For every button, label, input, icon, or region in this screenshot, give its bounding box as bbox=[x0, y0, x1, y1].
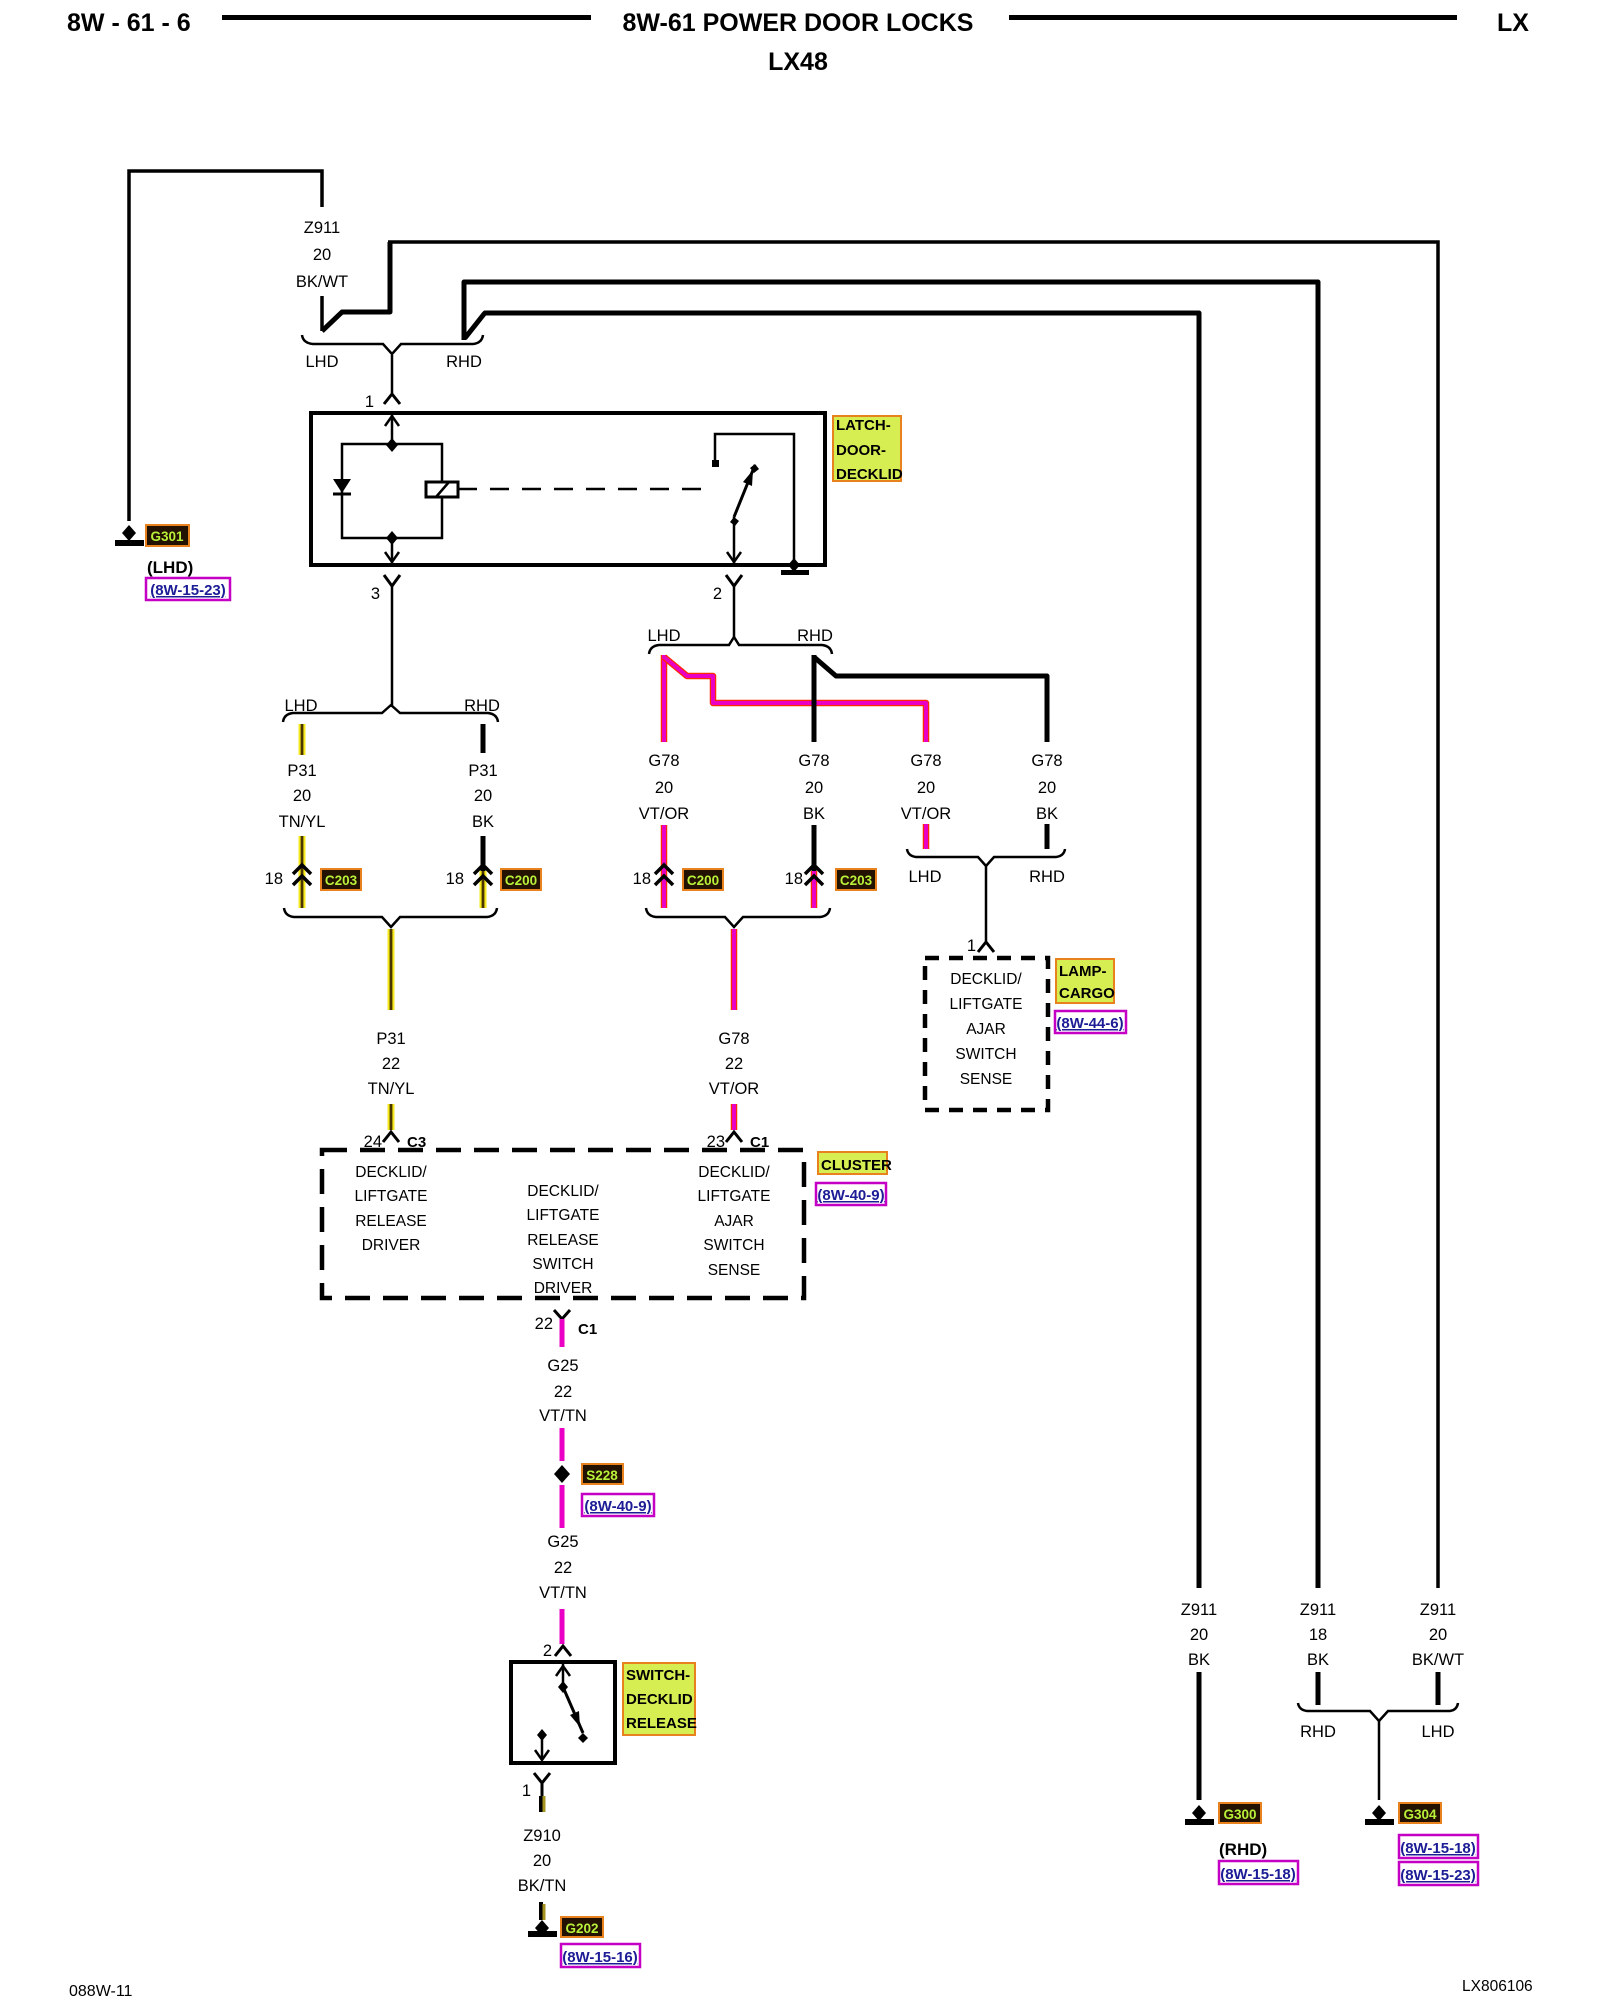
svg-text:20: 20 bbox=[293, 787, 311, 805]
brace RHD/LHD bottom right bbox=[1298, 1703, 1458, 1800]
svg-text:DECKLID/: DECKLID/ bbox=[527, 1183, 599, 1200]
svg-text:LIFTGATE: LIFTGATE bbox=[527, 1207, 600, 1224]
cluster dashed box bbox=[322, 1150, 804, 1298]
svg-text:C200: C200 bbox=[687, 873, 719, 888]
pin 1 lamp-cargo bbox=[967, 937, 994, 955]
pin 24 C3 cluster bbox=[364, 1132, 427, 1151]
svg-text:RHD: RHD bbox=[446, 353, 482, 371]
svg-text:G301: G301 bbox=[150, 529, 184, 544]
svg-text:Z911: Z911 bbox=[1181, 1601, 1217, 1619]
wire Z911 RHD routing (18 BK) bbox=[464, 282, 1318, 1588]
G78 column 1 labels and wire bbox=[639, 752, 690, 908]
svg-text:(RHD): (RHD) bbox=[1219, 1840, 1267, 1859]
wire G78 20 VT/OR LHD branch bbox=[664, 655, 926, 742]
svg-text:DRIVER: DRIVER bbox=[362, 1237, 421, 1254]
label CLUSTER bbox=[816, 1152, 892, 1205]
G78 column 2 labels and wire bbox=[798, 752, 829, 908]
svg-text:(8W-15-23): (8W-15-23) bbox=[150, 582, 226, 599]
ground G304 bbox=[1365, 1803, 1478, 1885]
switch arm with arrow bbox=[563, 1687, 583, 1733]
svg-text:G300: G300 bbox=[1223, 1807, 1256, 1822]
brace LHD/RHD under pin 2 bbox=[647, 627, 832, 654]
wire Z910 20 BK/TN bbox=[518, 1783, 567, 1920]
wire G25 22 VT/TN lower bbox=[539, 1533, 587, 1644]
svg-text:LHD: LHD bbox=[284, 697, 317, 715]
ground G301 bbox=[115, 525, 230, 600]
wire Z911 20 BK/WT LHD feed bbox=[129, 171, 348, 521]
svg-text:LIFTGATE: LIFTGATE bbox=[698, 1188, 771, 1205]
svg-text:LX806106: LX806106 bbox=[1462, 1978, 1533, 1995]
brace merge G78 columns 3-4 LHD/RHD bbox=[907, 849, 1065, 941]
svg-text:RELEASE: RELEASE bbox=[355, 1213, 427, 1230]
wire P31 22 TN/YL bbox=[368, 929, 415, 1130]
brace LHD/RHD under pin 3 bbox=[283, 697, 500, 722]
svg-text:C203: C203 bbox=[325, 873, 358, 888]
svg-text:LX: LX bbox=[1497, 9, 1529, 37]
svg-text:(LHD): (LHD) bbox=[147, 558, 193, 577]
pin 23 C1 cluster bbox=[707, 1132, 770, 1151]
svg-text:BK/TN: BK/TN bbox=[518, 1877, 567, 1895]
svg-text:CARGO: CARGO bbox=[1059, 985, 1115, 1002]
svg-text:LIFTGATE: LIFTGATE bbox=[355, 1188, 428, 1205]
svg-text:2: 2 bbox=[713, 585, 722, 603]
svg-text:BK: BK bbox=[803, 805, 825, 823]
wire Z911 LHD routing to right column bbox=[322, 242, 1438, 1588]
svg-text:C203: C203 bbox=[840, 873, 873, 888]
Z911 right column 2 (18 BK) bbox=[1300, 1601, 1336, 1705]
svg-text:P31: P31 bbox=[468, 762, 497, 780]
svg-text:RELEASE: RELEASE bbox=[527, 1232, 599, 1249]
wire P31 20 BK stub bbox=[468, 724, 497, 908]
svg-text:20: 20 bbox=[655, 779, 673, 797]
connector C200 18ga chevrons (G78) bbox=[633, 865, 723, 890]
svg-text:(8W-15-18): (8W-15-18) bbox=[1220, 1866, 1296, 1883]
svg-text:P31: P31 bbox=[376, 1030, 405, 1048]
svg-text:G78: G78 bbox=[910, 752, 941, 770]
svg-text:20: 20 bbox=[533, 1852, 551, 1870]
svg-text:18: 18 bbox=[785, 870, 803, 888]
svg-text:088W-11: 088W-11 bbox=[69, 1983, 133, 2000]
node: coil bottom junction bbox=[386, 531, 398, 545]
svg-text:SENSE: SENSE bbox=[708, 1262, 761, 1279]
svg-text:DECKLID: DECKLID bbox=[626, 1691, 693, 1708]
svg-text:8W-61 POWER DOOR LOCKS: 8W-61 POWER DOOR LOCKS bbox=[623, 9, 974, 37]
label LATCH-DOOR-DECKLID bbox=[833, 416, 903, 483]
svg-text:G78: G78 bbox=[798, 752, 829, 770]
connector C200 18ga chevrons bbox=[446, 865, 541, 890]
svg-text:RHD: RHD bbox=[1029, 868, 1065, 886]
svg-text:LATCH-: LATCH- bbox=[836, 417, 891, 434]
svg-text:SWITCH: SWITCH bbox=[532, 1256, 593, 1273]
wire G25 22 VT/TN upper bbox=[539, 1319, 587, 1461]
svg-text:SWITCH-: SWITCH- bbox=[626, 1667, 690, 1684]
svg-text:8W - 61 - 6: 8W - 61 - 6 bbox=[67, 9, 191, 37]
svg-text:22: 22 bbox=[535, 1315, 553, 1333]
svg-text:20: 20 bbox=[917, 779, 935, 797]
svg-text:(8W-15-16): (8W-15-16) bbox=[562, 1949, 638, 1966]
svg-text:G78: G78 bbox=[648, 752, 679, 770]
switch arm bbox=[734, 465, 755, 517]
svg-text:22: 22 bbox=[725, 1055, 743, 1073]
svg-text:LIFTGATE: LIFTGATE bbox=[950, 996, 1023, 1013]
footer bbox=[69, 1978, 1533, 2000]
pin 2 decklid release switch bbox=[543, 1642, 571, 1660]
svg-text:VT/OR: VT/OR bbox=[901, 805, 952, 823]
ground G202 bbox=[528, 1917, 640, 1967]
svg-text:BK: BK bbox=[1188, 1651, 1210, 1669]
svg-text:BK/WT: BK/WT bbox=[1412, 1651, 1464, 1669]
svg-text:18: 18 bbox=[633, 870, 651, 888]
lamp-cargo dashed box DECKLID/LIFTGATE AJAR SWITCH SENSE bbox=[925, 958, 1048, 1110]
wire G78 20 BK RHD branch bbox=[814, 655, 1047, 742]
svg-text:TN/YL: TN/YL bbox=[368, 1080, 415, 1098]
svg-text:BK: BK bbox=[1307, 1651, 1329, 1669]
svg-text:18: 18 bbox=[1309, 1626, 1327, 1644]
svg-text:VT/TN: VT/TN bbox=[539, 1407, 587, 1425]
svg-text:3: 3 bbox=[371, 585, 380, 603]
svg-text:C1: C1 bbox=[578, 1321, 597, 1338]
Z911 right column 3 (20 BK/WT) bbox=[1412, 1601, 1464, 1705]
svg-text:CLUSTER: CLUSTER bbox=[821, 1157, 892, 1174]
svg-text:(8W-44-6): (8W-44-6) bbox=[1056, 1015, 1123, 1032]
svg-text:VT/TN: VT/TN bbox=[539, 1584, 587, 1602]
svg-text:18: 18 bbox=[265, 870, 283, 888]
svg-text:20: 20 bbox=[1038, 779, 1056, 797]
svg-text:DRIVER: DRIVER bbox=[534, 1280, 593, 1297]
svg-text:DECKLID: DECKLID bbox=[836, 466, 903, 483]
pin 1 connector of latch bbox=[365, 393, 400, 411]
header bbox=[67, 9, 1529, 76]
wire Z911 RHD routing (20 BK) bbox=[465, 313, 1199, 1588]
svg-text:BK: BK bbox=[1036, 805, 1058, 823]
svg-text:DECKLID/: DECKLID/ bbox=[698, 1164, 770, 1181]
splice S228 bbox=[554, 1464, 654, 1528]
G78 column 3 labels and wire bbox=[901, 752, 952, 849]
svg-text:20: 20 bbox=[805, 779, 823, 797]
node: case ground junction bbox=[788, 558, 800, 572]
pin 3 connector of latch bbox=[371, 575, 400, 707]
svg-text:G78: G78 bbox=[718, 1030, 749, 1048]
svg-text:LAMP-: LAMP- bbox=[1059, 963, 1107, 980]
svg-text:G78: G78 bbox=[1031, 752, 1062, 770]
brace LHD/RHD top bbox=[302, 335, 483, 393]
svg-text:AJAR: AJAR bbox=[966, 1021, 1006, 1038]
relay coil bbox=[426, 482, 458, 497]
svg-text:SENSE: SENSE bbox=[960, 1071, 1013, 1088]
node: coil top junction bbox=[386, 438, 398, 452]
svg-text:22: 22 bbox=[554, 1559, 572, 1577]
relay/latch box LATCH-DOOR-DECKLID bbox=[311, 413, 825, 575]
svg-text:G304: G304 bbox=[1403, 1807, 1437, 1822]
dashed actuation link bbox=[458, 488, 714, 491]
svg-text:22: 22 bbox=[554, 1383, 572, 1401]
pin 1 decklid release switch bbox=[522, 1773, 550, 1800]
pin1 internal wire with up arrow bbox=[391, 413, 394, 444]
svg-text:(8W-40-9): (8W-40-9) bbox=[584, 1498, 651, 1515]
svg-text:C200: C200 bbox=[505, 873, 537, 888]
svg-text:G25: G25 bbox=[547, 1357, 578, 1375]
label SWITCH-DECKLID-RELEASE bbox=[623, 1663, 697, 1735]
svg-text:RHD: RHD bbox=[464, 697, 500, 715]
svg-text:VT/OR: VT/OR bbox=[639, 805, 690, 823]
svg-text:22: 22 bbox=[382, 1055, 400, 1073]
svg-text:18: 18 bbox=[446, 870, 464, 888]
svg-text:20: 20 bbox=[313, 246, 331, 264]
wire P31 20 TN/YL stub bbox=[279, 724, 326, 908]
switch box SWITCH-DECKLID-RELEASE bbox=[511, 1662, 615, 1763]
svg-text:RHD: RHD bbox=[797, 627, 833, 645]
svg-text:20: 20 bbox=[474, 787, 492, 805]
svg-text:(8W-40-9): (8W-40-9) bbox=[817, 1187, 884, 1204]
pin3 internal wire with down arrow bbox=[391, 538, 394, 563]
switch upper contact wire bbox=[715, 434, 794, 565]
svg-text:SWITCH: SWITCH bbox=[955, 1046, 1016, 1063]
svg-text:DOOR-: DOOR- bbox=[836, 442, 886, 459]
svg-text:BK/WT: BK/WT bbox=[296, 273, 348, 291]
svg-text:Z911: Z911 bbox=[1300, 1601, 1336, 1619]
svg-text:S228: S228 bbox=[586, 1468, 618, 1483]
pin 2 connector of latch bbox=[713, 575, 742, 637]
switch pivot wire with down arrow bbox=[733, 517, 736, 563]
svg-text:LHD: LHD bbox=[647, 627, 680, 645]
lower contact bbox=[537, 1729, 547, 1741]
svg-text:1: 1 bbox=[967, 937, 976, 955]
svg-text:VT/OR: VT/OR bbox=[709, 1080, 760, 1098]
diode (suppression) bbox=[333, 479, 351, 493]
svg-text:BK: BK bbox=[472, 813, 494, 831]
svg-text:SWITCH: SWITCH bbox=[703, 1237, 764, 1254]
svg-text:1: 1 bbox=[522, 1782, 531, 1800]
svg-text:LHD: LHD bbox=[1421, 1723, 1454, 1741]
svg-text:LHD: LHD bbox=[305, 353, 338, 371]
Z911 right column 1 (20 BK) bbox=[1181, 1601, 1217, 1800]
svg-text:RHD: RHD bbox=[1300, 1723, 1336, 1741]
pin 22 C1 cluster bottom bbox=[535, 1310, 598, 1338]
label LAMP-CARGO bbox=[1055, 959, 1126, 1033]
svg-text:AJAR: AJAR bbox=[714, 1213, 754, 1230]
brace merge G78 columns 1-2 bbox=[646, 908, 830, 927]
svg-text:G25: G25 bbox=[547, 1533, 578, 1551]
svg-text:20: 20 bbox=[1429, 1626, 1447, 1644]
svg-text:Z911: Z911 bbox=[1420, 1601, 1456, 1619]
relay coil loop bbox=[342, 444, 442, 538]
G78 column 4 labels and wire bbox=[1031, 752, 1062, 849]
brace merge P31 columns bbox=[284, 908, 497, 927]
ground G300 bbox=[1185, 1803, 1298, 1884]
svg-text:LHD: LHD bbox=[908, 868, 941, 886]
svg-text:LX48: LX48 bbox=[768, 48, 828, 76]
svg-text:G202: G202 bbox=[565, 1921, 598, 1936]
svg-text:RELEASE: RELEASE bbox=[626, 1715, 697, 1732]
connector C203 18ga chevrons (G78) bbox=[785, 865, 876, 890]
svg-text:1: 1 bbox=[365, 393, 374, 411]
case ground bar bbox=[781, 570, 809, 575]
svg-text:(8W-15-23): (8W-15-23) bbox=[1400, 1867, 1476, 1884]
svg-text:Z910: Z910 bbox=[523, 1827, 561, 1845]
svg-text:P31: P31 bbox=[287, 762, 316, 780]
svg-text:TN/YL: TN/YL bbox=[279, 813, 326, 831]
connector C203 18ga chevrons bbox=[265, 865, 361, 890]
wire G78 22 VT/OR bbox=[709, 929, 760, 1130]
svg-text:DECKLID/: DECKLID/ bbox=[355, 1164, 427, 1181]
svg-text:(8W-15-18): (8W-15-18) bbox=[1400, 1840, 1476, 1857]
svg-text:20: 20 bbox=[1190, 1626, 1208, 1644]
svg-text:DECKLID/: DECKLID/ bbox=[950, 971, 1022, 988]
svg-text:2: 2 bbox=[543, 1642, 552, 1660]
svg-text:Z911: Z911 bbox=[304, 219, 340, 237]
